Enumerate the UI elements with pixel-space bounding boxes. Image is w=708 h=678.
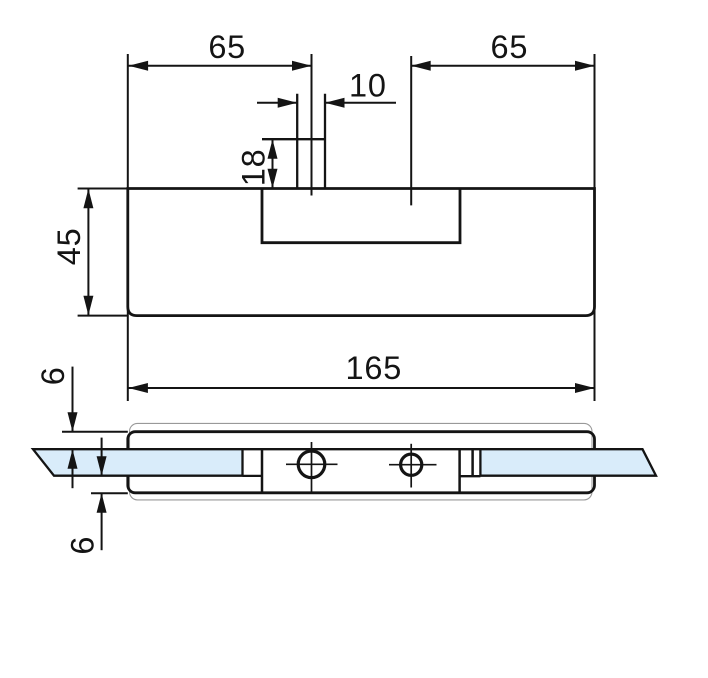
svg-text:6: 6 [64, 536, 100, 555]
dimension 45 plate height [51, 189, 93, 315]
glass pane left [33, 449, 243, 476]
tab right edge [324, 94, 326, 189]
center line of tab [311, 54, 313, 196]
back plate section view [130, 423, 593, 500]
svg-text:45: 45 [51, 228, 87, 266]
dimension 65 right [411, 29, 594, 71]
dimension 65 left [128, 29, 312, 71]
svg-text:65: 65 [208, 29, 246, 65]
dimension 10 tab width [257, 68, 396, 108]
step horizontal right [460, 475, 481, 477]
6 lower extension [91, 492, 128, 494]
screw hole 1 [286, 442, 338, 492]
6 upper extension [62, 431, 128, 433]
front plate section view [128, 432, 595, 493]
dimension 6 lower [64, 438, 106, 555]
step horizontal left [243, 475, 263, 477]
step vertical right [471, 449, 474, 476]
svg-text:10: 10 [349, 68, 387, 104]
tab top line [262, 138, 326, 140]
plate outline top view [128, 189, 595, 316]
svg-text:18: 18 [236, 149, 272, 187]
extension line left edge [127, 54, 129, 401]
body right edge [458, 449, 461, 493]
notch recess top view [262, 189, 460, 243]
extension line right edge [594, 54, 596, 401]
glass pane right [480, 449, 656, 476]
45 extension bottom [78, 315, 128, 317]
45 extension top [78, 188, 128, 190]
dimension 6 upper [35, 366, 77, 488]
svg-text:6: 6 [35, 366, 71, 385]
tab left edge [296, 94, 298, 189]
svg-text:65: 65 [491, 29, 529, 65]
dimension 18 tab height [236, 139, 278, 188]
dimension 165 overall width [128, 350, 595, 393]
svg-text:165: 165 [345, 350, 402, 386]
body left edge [261, 449, 264, 493]
body top line [243, 448, 481, 450]
extension line pivot axis [410, 56, 412, 205]
screw hole 2 [389, 444, 437, 488]
